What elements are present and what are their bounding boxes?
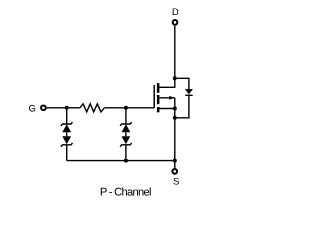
- terminal D: [173, 20, 178, 25]
- wire top rail to diode branch: [175, 78, 189, 89]
- wire resistor to gate node: [104, 107, 126, 109]
- node source rail junction: [173, 159, 177, 163]
- zener Z3 anode triangle (points up): [122, 124, 131, 132]
- wire bottom rail: [67, 160, 175, 162]
- wire source to terminal: [174, 161, 176, 169]
- Q1 body arrow head: [169, 96, 174, 100]
- wire gate from terminal to resistor: [47, 107, 80, 109]
- wire right chain upper: [125, 108, 127, 124]
- right zener pair (gate ESD clamp): [120, 108, 132, 161]
- wire left chain lower: [66, 145, 68, 161]
- svg-text:D: D: [172, 7, 179, 18]
- zener Z1 anode triangle (points up): [62, 124, 71, 132]
- node drain junction: [173, 76, 177, 80]
- node gate-left zener junction: [65, 106, 69, 110]
- terminal G: [41, 105, 46, 110]
- resistor R1 (gate series): [80, 104, 105, 112]
- svg-text:P - Channel: P - Channel: [100, 187, 151, 199]
- Q1 drain stub: [158, 78, 175, 87]
- Q1 channel middle segment: [157, 95, 160, 104]
- zener Z4 anode triangle (points down): [122, 136, 131, 144]
- node resistor-right zener junction: [124, 106, 128, 110]
- Q1 channel top segment: [157, 83, 160, 93]
- wire left chain upper: [66, 108, 68, 124]
- zener Z2 anode triangle (points down): [62, 136, 71, 144]
- zener Z3 cathode bar: [120, 122, 132, 126]
- wire between left zeners: [66, 132, 68, 136]
- wire between right zeners: [125, 132, 127, 136]
- wire right chain lower: [125, 145, 127, 161]
- wire source vertical: [174, 98, 176, 161]
- zener Z4 cathode bar: [120, 143, 132, 147]
- node source stub junction: [173, 107, 177, 111]
- node right zener bottom junction: [124, 159, 128, 163]
- Q1 source stub: [158, 108, 175, 110]
- node diode-source junction: [173, 116, 177, 120]
- body diode D1 (cathode bar): [185, 94, 193, 96]
- svg-text:G: G: [29, 104, 36, 115]
- zener Z1 cathode bar: [61, 122, 73, 126]
- transistor Q1 P-channel MOSFET: [154, 78, 175, 112]
- zener Z2 cathode bar: [61, 143, 73, 147]
- wire gate lead to Q1: [126, 107, 154, 109]
- Q1 gate bar: [153, 85, 155, 108]
- body diode D1 (anode): [185, 89, 193, 94]
- wire diode branch lower: [175, 95, 189, 118]
- Q1 body stub with arrow: [158, 97, 175, 99]
- svg-text:S: S: [173, 176, 179, 187]
- terminal S: [172, 169, 177, 174]
- wire drain vertical: [174, 26, 176, 79]
- Q1 channel bottom segment: [157, 107, 160, 112]
- left zener pair (gate ESD clamp): [61, 108, 73, 161]
